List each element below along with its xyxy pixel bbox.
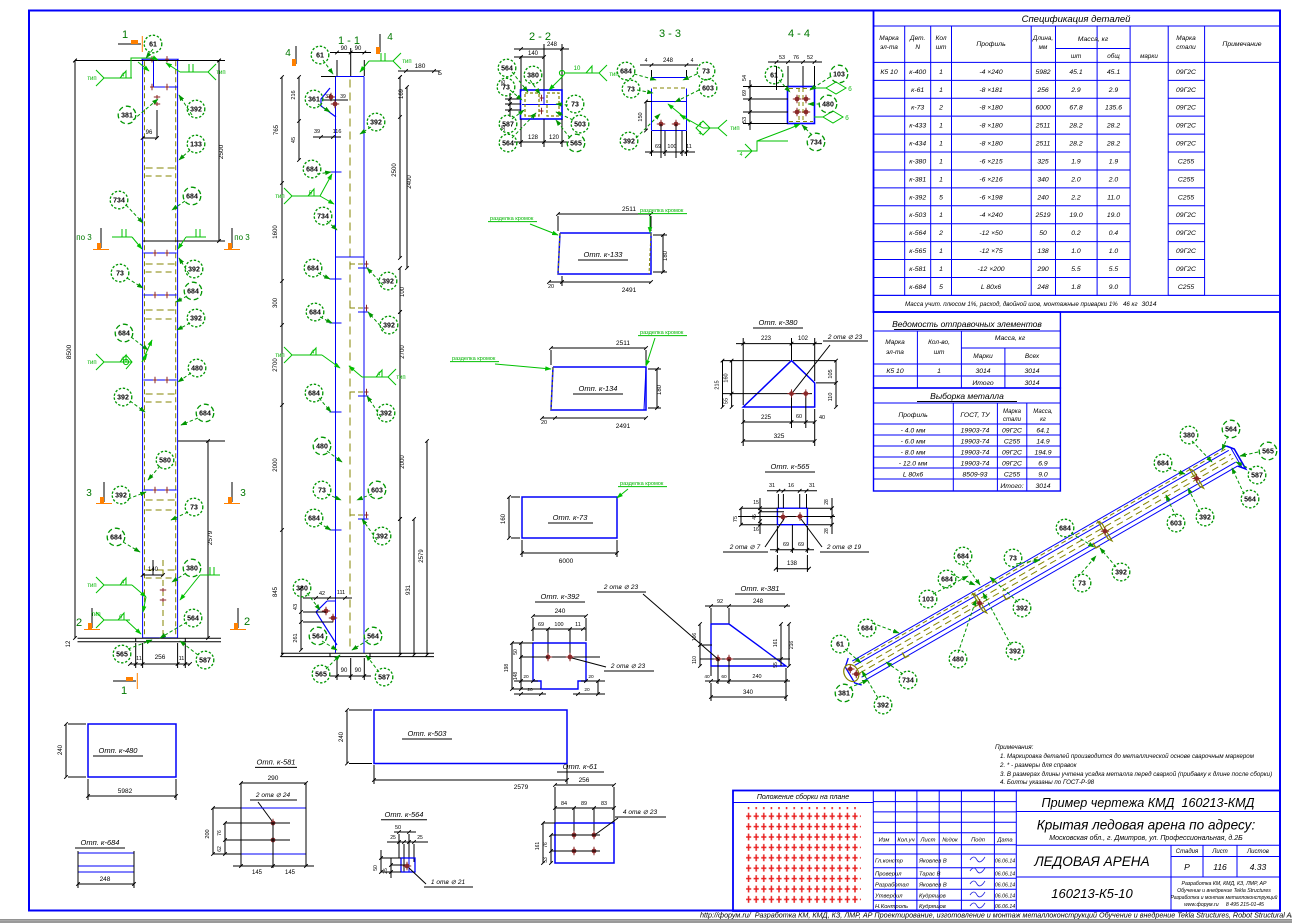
4-4 bolts <box>795 97 800 102</box>
svg-text:к-503: к-503 <box>909 212 926 219</box>
svg-text:эл-та: эл-та <box>880 44 898 51</box>
svg-text:2700: 2700 <box>400 345 406 359</box>
svg-text:392: 392 <box>1009 648 1021 655</box>
svg-text:11: 11 <box>575 622 581 628</box>
svg-text:1: 1 <box>939 87 943 94</box>
svg-text:09Г2С: 09Г2С <box>1176 141 1196 148</box>
svg-text:Кудряшов: Кудряшов <box>919 904 946 910</box>
k-581 bolts <box>271 821 276 826</box>
svg-text:31: 31 <box>769 483 775 489</box>
3D callout circle 61 <box>831 635 849 653</box>
svg-text:Отп. к-565: Отп. к-565 <box>771 462 811 471</box>
svg-text:28.2: 28.2 <box>1068 141 1082 148</box>
svg-text:стали: стали <box>1176 44 1196 51</box>
svg-text:Марка: Марка <box>885 339 905 346</box>
specification row lines <box>874 79 1131 81</box>
svg-text:603: 603 <box>702 85 714 92</box>
svg-text:5982: 5982 <box>118 788 133 795</box>
svg-text:5.5: 5.5 <box>1109 266 1119 273</box>
3-3 weld symbol <box>718 120 727 136</box>
3D callout circle 380 <box>1180 426 1198 444</box>
svg-text:06.06.14: 06.06.14 <box>995 883 1015 889</box>
svg-text:381: 381 <box>121 112 133 119</box>
svg-text:28.2: 28.2 <box>1106 141 1120 148</box>
detail k-503 <box>374 710 567 764</box>
svg-text:С255: С255 <box>1178 194 1194 201</box>
3D callout circle 684 <box>858 619 876 637</box>
3D column: hidden centre lines <box>857 454 1231 669</box>
k-565 right dims <box>831 498 833 534</box>
svg-text:128: 128 <box>528 135 539 141</box>
3D callout circle 564 <box>1222 420 1240 438</box>
svg-text:684: 684 <box>941 576 953 583</box>
k-381 bolts <box>700 658 790 660</box>
svg-text:б: б <box>845 116 849 122</box>
dim 140 lower <box>152 560 154 575</box>
callout circle 61 <box>765 66 783 84</box>
dim 96 <box>156 110 158 138</box>
svg-text:503: 503 <box>574 121 586 128</box>
bottom gusset dims <box>303 597 352 599</box>
bottom strip line <box>0 919 1292 921</box>
svg-text:14.9: 14.9 <box>1036 438 1049 445</box>
svg-text:Отп. к-392: Отп. к-392 <box>541 592 581 601</box>
k-565 bottom dims <box>776 526 778 553</box>
svg-text:2579: 2579 <box>514 784 529 791</box>
svg-text:684: 684 <box>118 330 130 337</box>
svg-text:1600: 1600 <box>273 225 279 239</box>
svg-text:-12 ×50: -12 ×50 <box>979 230 1002 237</box>
svg-text:102: 102 <box>798 336 809 342</box>
callout circle 587 <box>499 115 517 133</box>
svg-text:248: 248 <box>663 58 674 64</box>
svg-text:-6 ×215: -6 ×215 <box>979 158 1002 165</box>
3D column: transverse plates <box>973 594 987 613</box>
svg-text:42: 42 <box>319 591 325 597</box>
3D callout circle 392 <box>874 696 892 714</box>
svg-text:684: 684 <box>187 288 199 295</box>
vyborka rows <box>874 423 1061 425</box>
svg-text:45.1: 45.1 <box>1069 69 1082 76</box>
svg-text:931: 931 <box>406 584 412 595</box>
svg-text:28: 28 <box>824 528 830 534</box>
svg-text:116: 116 <box>1213 862 1227 872</box>
svg-text:4. Болты указаны по ГОСТ-Р-98: 4. Болты указаны по ГОСТ-Р-98 <box>1000 779 1095 786</box>
svg-text:мм: мм <box>1039 44 1048 51</box>
vedomost rows <box>874 363 1061 365</box>
svg-text:69: 69 <box>538 622 544 628</box>
weld flag right mid <box>186 236 206 238</box>
svg-text:L 80х6: L 80х6 <box>981 284 1002 291</box>
svg-text:90: 90 <box>355 668 362 674</box>
svg-text:565: 565 <box>116 651 128 658</box>
svg-text:Выборка металла: Выборка металла <box>930 391 1004 401</box>
svg-text:-8 ×180: -8 ×180 <box>979 141 1002 148</box>
svg-text:161: 161 <box>535 842 541 851</box>
callout circle 603 <box>699 79 717 97</box>
svg-text:20: 20 <box>584 687 590 693</box>
svg-text:734: 734 <box>113 197 125 204</box>
specification table outer <box>874 11 1281 313</box>
svg-text:4: 4 <box>311 350 314 356</box>
k-565 top dims <box>777 494 779 508</box>
svg-text:2 отв ⊘ 7: 2 отв ⊘ 7 <box>729 544 761 551</box>
svg-text:76: 76 <box>217 830 223 836</box>
svg-text:194.9: 194.9 <box>1034 449 1051 456</box>
view 1-1: full stiffener line <box>336 256 365 258</box>
callout circle 381 <box>118 106 136 124</box>
svg-text:Московская обл., г. Дмитров, у: Московская обл., г. Дмитров, ул. Професс… <box>1049 834 1243 842</box>
svg-text:ЛЕДОВАЯ АРЕНА: ЛЕДОВАЯ АРЕНА <box>1033 854 1149 869</box>
svg-text:290: 290 <box>268 775 279 782</box>
svg-text:8509-93: 8509-93 <box>963 471 988 478</box>
svg-text:Лист: Лист <box>920 838 936 844</box>
svg-text:96: 96 <box>146 130 153 136</box>
3D callout circle 684 <box>954 547 972 565</box>
svg-text:684: 684 <box>308 515 320 522</box>
svg-text:256: 256 <box>579 777 590 784</box>
callout circle 361 <box>305 90 323 108</box>
svg-text:90: 90 <box>341 668 348 674</box>
svg-text:20: 20 <box>588 674 594 680</box>
k-381 dims top <box>705 605 790 607</box>
callout circle 565 <box>113 645 131 663</box>
svg-text:50: 50 <box>373 865 379 871</box>
svg-text:стали: стали <box>1003 417 1022 423</box>
4-4 welds right <box>826 82 846 94</box>
svg-text:73: 73 <box>502 84 510 91</box>
callout circle 564 <box>498 59 516 77</box>
svg-text:25: 25 <box>417 835 423 841</box>
svg-text:145: 145 <box>285 870 296 876</box>
dim 180 top right <box>398 70 440 72</box>
svg-text:Итого:: Итого: <box>1000 483 1023 490</box>
dims 39 116 <box>313 136 341 138</box>
svg-text:198: 198 <box>504 664 510 673</box>
svg-text:Отп. к-581: Отп. к-581 <box>257 758 296 767</box>
k-73 dim 6000 <box>522 552 617 554</box>
svg-text:135.6: 135.6 <box>1105 105 1122 112</box>
svg-text:480: 480 <box>316 443 328 450</box>
svg-text:55: 55 <box>724 398 730 404</box>
svg-text:4: 4 <box>645 58 648 64</box>
svg-text:392: 392 <box>383 322 395 329</box>
svg-text:565: 565 <box>315 671 327 678</box>
svg-text:09Г2С: 09Г2С <box>1176 230 1196 237</box>
svg-text:тип: тип <box>275 353 284 359</box>
k-480 dim 240 <box>65 724 67 777</box>
callout circle 133 <box>187 135 205 153</box>
svg-text:Отп. к-381: Отп. к-381 <box>741 584 780 593</box>
view 1-1: column edges <box>335 77 337 653</box>
svg-text:256: 256 <box>155 654 166 661</box>
3-3 bolts <box>659 122 664 127</box>
svg-text:20: 20 <box>548 284 554 290</box>
svg-text:3014: 3014 <box>1035 483 1050 490</box>
svg-text:90: 90 <box>355 46 362 52</box>
svg-text:111: 111 <box>337 590 345 596</box>
svg-text:19903-74: 19903-74 <box>961 438 990 445</box>
3D callout circle 684 <box>938 570 956 588</box>
svg-text:6000: 6000 <box>559 558 574 565</box>
svg-text:2491: 2491 <box>616 423 631 430</box>
svg-text:1: 1 <box>121 685 127 697</box>
k-565 plate <box>777 508 807 525</box>
svg-text:6.9: 6.9 <box>1038 460 1048 467</box>
svg-text:www.форум.ru 8 495 215-01-: www.форум.ru 8 495 215-01-45 <box>1184 902 1264 908</box>
svg-text:к-380: к-380 <box>909 158 926 165</box>
callout circle 734 <box>314 207 332 225</box>
svg-text:Масса, кг: Масса, кг <box>995 335 1026 342</box>
svg-text:60: 60 <box>721 674 727 680</box>
svg-text:392: 392 <box>1115 569 1127 576</box>
svg-text:73: 73 <box>627 86 635 93</box>
svg-text:Пример чертежа КМД 160213-КМД: Пример чертежа КМД 160213-КМД <box>1041 796 1254 810</box>
svg-text:12: 12 <box>66 640 72 647</box>
k-503 dim 2579 <box>374 779 567 781</box>
view 1-1: top cap <box>321 76 364 78</box>
svg-text:25: 25 <box>383 868 389 874</box>
k-380 top dims <box>742 338 744 405</box>
3D column: left end cap <box>845 658 861 685</box>
svg-text:тип: тип <box>87 360 96 366</box>
svg-text:392: 392 <box>188 266 200 273</box>
svg-text:09Г2С: 09Г2С <box>1002 449 1022 456</box>
3D small angle clips <box>902 653 909 658</box>
svg-text:565: 565 <box>1262 448 1274 455</box>
svg-text:- 8.0 мм: - 8.0 мм <box>901 449 926 456</box>
left elevation: hidden edge dashes <box>144 61 146 636</box>
svg-text:240: 240 <box>555 608 566 615</box>
dim 2579 right <box>207 441 209 638</box>
svg-text:40: 40 <box>819 415 825 421</box>
svg-text:200: 200 <box>205 829 211 838</box>
3-3 dims top <box>651 70 653 78</box>
svg-text:145: 145 <box>252 870 263 876</box>
callout circle 684 <box>107 528 125 546</box>
svg-text:06.06.14: 06.06.14 <box>995 904 1015 910</box>
callout circle 73 <box>622 80 640 98</box>
k-380 right dims <box>835 361 837 407</box>
weld 1-1 top right <box>369 60 393 62</box>
right dim 931 2579 <box>413 519 415 655</box>
svg-text:11: 11 <box>686 144 692 150</box>
svg-text:2511: 2511 <box>1035 123 1051 130</box>
svg-text:240: 240 <box>1036 194 1049 201</box>
svg-text:19903-74: 19903-74 <box>961 449 990 456</box>
svg-text:2 отв ⊘ 24: 2 отв ⊘ 24 <box>255 792 291 799</box>
svg-text:1: 1 <box>939 176 943 183</box>
svg-text:Отп. к-564: Отп. к-564 <box>385 810 424 819</box>
svg-text:587: 587 <box>199 657 211 664</box>
vedomost header <box>916 331 918 388</box>
detail k-73 <box>522 497 617 538</box>
svg-text:С255: С255 <box>1178 284 1194 291</box>
svg-text:116: 116 <box>333 129 342 135</box>
left elevation: column outline <box>142 59 144 638</box>
vyborka header <box>952 403 954 491</box>
3D callout circle 73 <box>1073 574 1091 592</box>
svg-text:20: 20 <box>527 687 533 693</box>
k-61 dims 84 89 83 <box>555 807 614 809</box>
svg-text:480: 480 <box>952 656 964 663</box>
svg-text:-12 ×75: -12 ×75 <box>979 248 1002 255</box>
svg-text:380: 380 <box>296 585 308 592</box>
svg-text:120: 120 <box>549 135 560 141</box>
k-581 left dims <box>212 808 214 854</box>
svg-text:45: 45 <box>291 137 297 143</box>
svg-text:Положение сборки на плане: Положение сборки на плане <box>757 793 849 801</box>
k-134 dim 180 <box>656 369 658 408</box>
callout circle 73 <box>497 78 515 96</box>
k-565 bolts <box>738 516 835 518</box>
callout circle 392 <box>367 113 385 131</box>
svg-text:69: 69 <box>655 144 661 150</box>
callout circle 565 <box>567 134 585 152</box>
svg-text:684: 684 <box>1059 525 1071 532</box>
svg-text:2 отв ⊘ 23: 2 отв ⊘ 23 <box>610 663 646 670</box>
svg-text:684: 684 <box>620 68 632 75</box>
svg-text:Отп. к-480: Отп. к-480 <box>99 746 139 755</box>
svg-text:9.0: 9.0 <box>1109 284 1119 291</box>
svg-text:9.0: 9.0 <box>1038 471 1048 478</box>
svg-text:90: 90 <box>341 46 348 52</box>
svg-text:тип: тип <box>275 194 284 200</box>
svg-text:Спецификация деталей: Спецификация деталей <box>1022 14 1132 25</box>
3D callout circle 603 <box>1167 514 1185 532</box>
svg-text:28: 28 <box>824 499 830 505</box>
svg-text:248: 248 <box>100 876 111 883</box>
view 1-1: bottom bevel bracket <box>316 601 337 645</box>
callout circle 73 <box>697 62 715 80</box>
3D column: right end cap <box>1226 446 1245 469</box>
k-392 bolts <box>520 656 600 658</box>
view 1-1: leaders <box>323 60 333 74</box>
svg-text:Кол-во,: Кол-во, <box>928 339 950 346</box>
right dim 100 2700 2000 <box>399 268 401 312</box>
svg-text:шт: шт <box>934 349 945 356</box>
svg-text:Стадия: Стадия <box>1176 849 1199 855</box>
svg-text:392: 392 <box>380 410 392 417</box>
signature scribbles <box>970 857 985 862</box>
k-392 bottom notch dims <box>514 680 538 682</box>
2-2 left dims 35 35 <box>505 98 521 100</box>
red hatch plan <box>746 807 861 906</box>
svg-text:09Г2С: 09Г2С <box>1002 427 1022 434</box>
svg-text:Марка: Марка <box>1176 35 1196 42</box>
3D column: outer edges <box>852 446 1226 661</box>
4-4 dims top <box>776 66 778 90</box>
svg-text:845: 845 <box>273 586 279 597</box>
3D callout circle 392 <box>1006 642 1024 660</box>
svg-text:Р: Р <box>1184 862 1190 872</box>
svg-text:1.9: 1.9 <box>1109 158 1119 165</box>
dim 90 90 bottom <box>336 658 338 680</box>
k-392 dim 240 <box>533 615 586 617</box>
svg-text:Подп: Подп <box>971 838 986 844</box>
svg-text:19903-74: 19903-74 <box>961 460 990 467</box>
svg-text:19.0: 19.0 <box>1069 212 1082 219</box>
svg-text:тип: тип <box>87 583 96 589</box>
svg-text:4: 4 <box>740 152 743 158</box>
svg-text:-12 ×200: -12 ×200 <box>977 266 1004 273</box>
svg-text:Отп. к-134: Отп. к-134 <box>579 384 618 393</box>
3-3 channel <box>651 89 653 131</box>
weld symbol top right <box>180 71 208 73</box>
svg-text:тип: тип <box>87 76 96 82</box>
callout circle 503 <box>571 115 589 133</box>
callout circle 73 <box>566 95 584 113</box>
callout circle 587 <box>375 668 393 686</box>
svg-text:2400: 2400 <box>407 175 413 189</box>
svg-text:тип: тип <box>91 612 100 618</box>
svg-text:684: 684 <box>186 193 198 200</box>
callout circle 480 <box>313 437 331 455</box>
k-392 dims 69 100 11 <box>533 628 586 630</box>
svg-text:2.9: 2.9 <box>1070 87 1081 94</box>
svg-text:392: 392 <box>190 315 202 322</box>
k-380 shape <box>743 361 815 407</box>
svg-text:61: 61 <box>149 41 157 48</box>
weld 1-1 left Б <box>292 195 320 197</box>
svg-text:2.2: 2.2 <box>1070 194 1081 201</box>
svg-text:б: б <box>848 87 852 93</box>
svg-text:225: 225 <box>761 415 772 421</box>
2-2 dims bottom 128 120 <box>520 119 522 147</box>
svg-text:50: 50 <box>395 825 401 831</box>
k-581 dim 290 <box>241 782 306 784</box>
svg-text:1: 1 <box>122 29 128 41</box>
svg-text:эл-та: эл-та <box>886 349 904 356</box>
svg-text:09Г2С: 09Г2С <box>1176 87 1196 94</box>
k-684 dim 248 <box>78 883 134 885</box>
svg-text:69: 69 <box>783 542 789 548</box>
3D callout circle 392 <box>1196 508 1214 526</box>
svg-text:480: 480 <box>822 101 834 108</box>
svg-text:Яковлев В: Яковлев В <box>918 883 947 889</box>
svg-text:шт: шт <box>1071 53 1081 60</box>
svg-text:31: 31 <box>809 483 815 489</box>
svg-text:4 - 4: 4 - 4 <box>788 28 810 40</box>
dim 90 90 top <box>336 60 338 76</box>
svg-text:09Г2С: 09Г2С <box>1176 69 1196 76</box>
svg-text:216: 216 <box>291 90 297 99</box>
callout circle 684 <box>304 259 322 277</box>
svg-text:392: 392 <box>370 119 382 126</box>
callout circle 564 <box>309 627 327 645</box>
callout circle 73 <box>111 264 129 282</box>
callout circle 587 <box>196 651 214 669</box>
svg-text:09Г2С: 09Г2С <box>1002 460 1022 467</box>
svg-text:28.2: 28.2 <box>1106 123 1120 130</box>
svg-text:2: 2 <box>938 105 943 112</box>
callout circle 392 <box>373 527 391 545</box>
callout circle 392 <box>185 260 203 278</box>
k-133 dim 180 <box>662 235 664 272</box>
callout circle 480 <box>188 359 206 377</box>
svg-text:2. * - размеры для справок: 2. * - размеры для справок <box>999 762 1078 769</box>
svg-text:- 4.0 мм: - 4.0 мм <box>901 427 926 434</box>
weld symbol middle <box>104 361 132 363</box>
svg-text:-8 ×180: -8 ×180 <box>979 123 1002 130</box>
svg-text:кг: кг <box>1040 417 1046 423</box>
svg-text:2 отв ⊘ 23: 2 отв ⊘ 23 <box>827 334 863 341</box>
svg-text:587: 587 <box>378 674 390 681</box>
dim 2500 right <box>218 61 220 242</box>
svg-text:19.0: 19.0 <box>1107 212 1120 219</box>
left elevation: bolts top <box>151 56 153 62</box>
svg-text:1.0: 1.0 <box>1071 248 1081 255</box>
